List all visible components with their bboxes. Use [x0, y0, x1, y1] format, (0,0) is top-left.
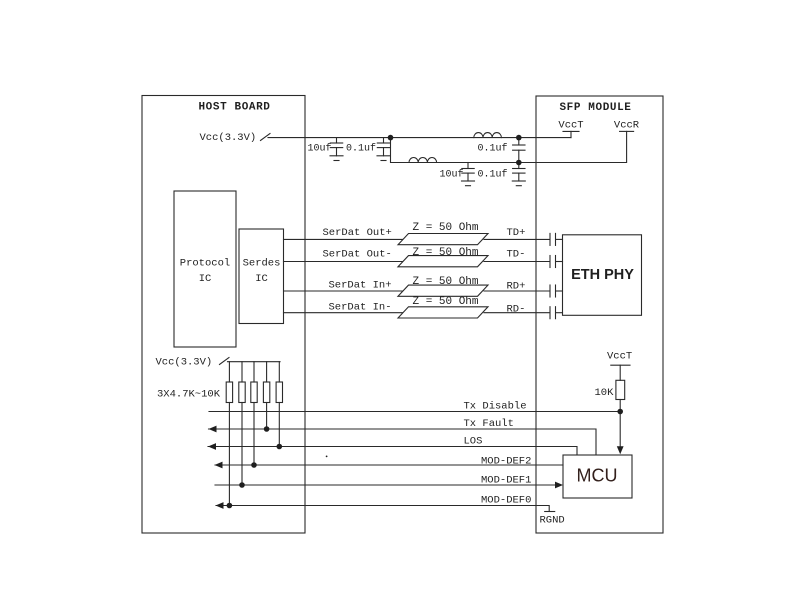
svg-text:Z = 50 Ohm: Z = 50 Ohm	[413, 247, 479, 259]
MCU	[563, 455, 632, 498]
capacitor C4 10uf bottom rail	[462, 163, 475, 186]
svg-text:Protocol: Protocol	[180, 258, 230, 270]
capacitor C1 10uf	[330, 138, 343, 161]
svg-text:Z = 50 Ohm: Z = 50 Ohm	[413, 276, 479, 288]
wire bottom rail	[391, 131, 627, 162]
host board box	[142, 96, 305, 534]
svg-text:Serdes: Serdes	[243, 258, 281, 270]
svg-text:0.1uf: 0.1uf	[478, 169, 508, 181]
svg-text:Vcc(3.3V): Vcc(3.3V)	[156, 357, 213, 369]
svg-text:Vcc(3.3V): Vcc(3.3V)	[200, 132, 257, 144]
svg-text:VccT: VccT	[558, 120, 583, 132]
capacitor C2 0.1uf	[377, 138, 390, 161]
wire MOD-DEF2	[215, 464, 563, 466]
svg-text:SerDat Out+: SerDat Out+	[323, 227, 392, 239]
svg-text:Tx Fault: Tx Fault	[464, 418, 514, 430]
wire SerDat In-	[284, 312, 405, 314]
ETH PHY	[563, 235, 642, 315]
wire MOD-DEF0	[216, 506, 549, 512]
junction Tx Fault R4	[264, 426, 270, 432]
svg-text:ETH PHY: ETH PHY	[571, 267, 634, 283]
junction top rail B	[516, 135, 522, 141]
coupling capacitor row4	[550, 307, 556, 319]
junction LOS R5	[277, 444, 283, 450]
wire MOD-DEF1	[215, 484, 556, 486]
wire Vcc(3.3V) lower rail	[228, 361, 281, 363]
SFP module box	[536, 96, 663, 533]
resistor lead R3 to MOD-DEF2	[253, 403, 255, 466]
serdes IC	[239, 229, 284, 324]
svg-text:MOD-DEF2: MOD-DEF2	[481, 456, 531, 468]
svg-text:RD+: RD+	[507, 281, 526, 293]
svg-text:MOD-DEF0: MOD-DEF0	[481, 495, 531, 507]
wire SerDat Out+	[284, 238, 405, 240]
junction MOD-DEF2 R3	[251, 462, 257, 468]
svg-text:0.1uf: 0.1uf	[346, 143, 376, 155]
svg-text:SerDat In-: SerDat In-	[329, 302, 392, 314]
resistor R1	[226, 382, 232, 403]
svg-text:SerDat Out-: SerDat Out-	[323, 249, 392, 261]
coupling capacitor row1	[550, 233, 556, 245]
capacitor C5 0.1uf bottom rail	[512, 163, 525, 186]
svg-text:VccT: VccT	[607, 351, 632, 363]
resistor R3	[251, 382, 257, 403]
transmission line Z2	[398, 256, 488, 267]
svg-text:LOS: LOS	[464, 436, 483, 448]
resistor R4	[263, 382, 269, 403]
svg-text:IC: IC	[255, 273, 268, 285]
svg-text:MOD-DEF1: MOD-DEF1	[481, 475, 531, 487]
junction bottom rail	[516, 160, 522, 166]
arrowhead MOD-DEF0	[216, 502, 224, 509]
svg-text:MCU: MCU	[577, 466, 618, 486]
svg-text:10K: 10K	[595, 387, 615, 399]
arrowhead Tx Disable into MCU	[617, 446, 624, 454]
svg-text:10uf: 10uf	[440, 169, 464, 181]
resistor lead R4 to Tx Fault	[266, 403, 268, 430]
svg-text:Z = 50 Ohm: Z = 50 Ohm	[413, 296, 479, 308]
resistor lead R5 to LOS	[278, 403, 280, 447]
junction top rail A	[388, 135, 394, 141]
coupling capacitor row3	[550, 285, 556, 297]
svg-text:10uf: 10uf	[308, 143, 332, 155]
ground RGND bar	[545, 511, 555, 513]
wire Vcc(3.3V) top rail	[268, 137, 571, 139]
slash on lower Vcc lead	[220, 358, 230, 365]
resistor lead R1 to MOD-DEF0	[228, 403, 230, 506]
inductor L2 bottom rail	[409, 158, 437, 163]
svg-text:TD-: TD-	[507, 249, 526, 261]
wire Tx Disable	[209, 411, 620, 413]
protocol IC	[174, 191, 236, 347]
inductor L1 top rail	[474, 133, 502, 138]
wire SerDat Out-	[284, 261, 405, 263]
svg-text:VccR: VccR	[614, 120, 640, 132]
speck artifact	[326, 456, 328, 458]
wire LOS	[208, 447, 577, 456]
wire SerDat In+	[284, 290, 405, 292]
svg-text:TD+: TD+	[507, 227, 526, 239]
junction MOD-DEF0 R1	[227, 503, 233, 509]
power symbol VccR bar	[620, 130, 634, 132]
arrowhead MOD-DEF2	[215, 462, 223, 469]
transmission line Z1	[398, 234, 488, 245]
svg-text:Z = 50 Ohm: Z = 50 Ohm	[413, 222, 479, 234]
svg-text:RD-: RD-	[507, 304, 526, 316]
svg-text:0.1uf: 0.1uf	[478, 143, 508, 155]
wire Tx Fault	[209, 429, 597, 455]
capacitor C3 0.1uf between rails	[513, 138, 525, 163]
svg-text:HOST BOARD: HOST BOARD	[198, 102, 270, 114]
coupling capacitor row2	[550, 256, 556, 268]
wire VccT stem	[570, 131, 572, 137]
resistor R2	[239, 382, 245, 403]
svg-text:SFP MODULE: SFP MODULE	[559, 102, 631, 114]
wire VccT pullup stem	[619, 365, 621, 380]
slash on Vcc(3.3V) top lead	[261, 134, 271, 141]
svg-text:Tx Disable: Tx Disable	[464, 401, 527, 413]
resistor leads top	[228, 362, 230, 382]
power symbol VccT pullup bar	[611, 364, 630, 366]
resistor R5	[276, 382, 282, 403]
resistor lead R2 to MOD-DEF1	[241, 403, 243, 486]
arrowhead MOD-DEF1 into MCU	[555, 482, 563, 489]
svg-text:3X4.7K~10K: 3X4.7K~10K	[157, 389, 221, 401]
junction Tx Disable pullup	[617, 409, 623, 415]
junction MOD-DEF1 R2	[239, 482, 245, 488]
svg-text:IC: IC	[199, 273, 212, 285]
svg-text:RGND: RGND	[540, 515, 565, 527]
power symbol VccT bar	[563, 130, 579, 132]
svg-text:SerDat In+: SerDat In+	[329, 280, 392, 292]
arrowhead Tx Fault	[209, 426, 217, 433]
transmission line Z3	[398, 285, 488, 296]
wire pullup to Tx Disable and MCU	[619, 400, 621, 447]
arrowhead LOS	[208, 443, 216, 450]
resistor R6 10K	[616, 380, 625, 399]
transmission line Z4	[398, 307, 488, 318]
